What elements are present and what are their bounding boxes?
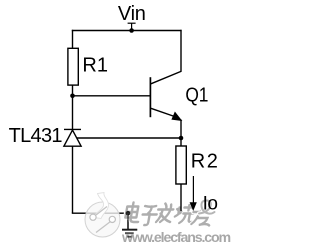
svg-text:www.elecfans.com: www.elecfans.com <box>121 230 231 246</box>
resistor R2 <box>176 146 186 184</box>
node Vin junction <box>129 28 134 33</box>
wire base <box>73 95 151 97</box>
Vin terminal tick <box>128 23 136 30</box>
resistor R1 <box>68 48 78 85</box>
wire TL431 anode down <box>72 146 74 213</box>
wire TL431 ref to emitter node <box>77 137 181 139</box>
svg-text:Io: Io <box>203 194 218 215</box>
wire R2 top stub <box>180 138 182 146</box>
svg-text:Q1: Q1 <box>185 83 208 105</box>
svg-text:Vin: Vin <box>118 3 146 25</box>
svg-text:R1: R1 <box>82 54 108 76</box>
wire top rail <box>72 30 182 32</box>
wire emitter drop <box>180 120 182 139</box>
node ground junction <box>126 211 131 216</box>
watermark logo circle <box>85 193 120 238</box>
wire collector riser <box>180 30 182 72</box>
watermark chinese chars dian zi fa <box>125 203 175 226</box>
Io current arrow <box>190 176 197 211</box>
ground stub and junction redrawn over watermark <box>126 211 131 229</box>
watermark chinese chars shao you and loop flourish <box>174 200 215 225</box>
node emitter R2 junction <box>179 136 184 141</box>
wire R2 bottom output <box>180 184 182 211</box>
transistor Q1 <box>150 71 181 120</box>
ground <box>122 213 137 237</box>
wire bottom <box>72 212 128 214</box>
TL431 shunt regulator D1 <box>64 129 81 146</box>
watermark url text <box>121 230 231 246</box>
ground bars redrawn over watermark <box>122 230 137 237</box>
wire R1 bottom to TL431 cathode <box>72 85 74 129</box>
node base tap junction <box>70 94 75 99</box>
wire Vin rail to R1 top <box>72 30 74 49</box>
svg-text:TL431: TL431 <box>9 125 63 147</box>
svg-text:R2: R2 <box>191 151 220 173</box>
